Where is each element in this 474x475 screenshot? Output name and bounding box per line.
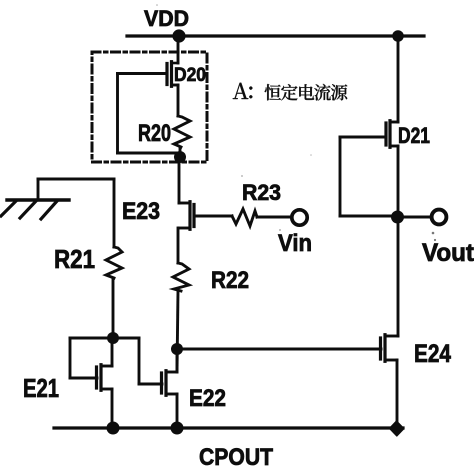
- transistor E24: [381, 335, 399, 428]
- wire E22 gate branch vertical: [138, 338, 141, 384]
- wire D21 gate loop vertical: [339, 137, 342, 216]
- node junction below R20: [174, 151, 186, 163]
- node junction VDD-D21: [392, 30, 404, 42]
- label A: constant current source: [233, 83, 347, 101]
- node junction E21-bottom: [107, 422, 120, 435]
- wire D20 gate loop bottom: [118, 152, 180, 155]
- wire R20 to node: [179, 147, 182, 160]
- wire D21 gate lead: [340, 136, 386, 139]
- svg-text:Vout: Vout: [422, 239, 474, 267]
- resistor R21: [106, 247, 122, 278]
- resistor R20: [174, 116, 190, 147]
- wire E21/E22 top link: [70, 337, 139, 340]
- wire VDD node to D21 drain: [397, 36, 400, 122]
- wire bottom rail CPOUT: [54, 426, 403, 429]
- wire R21 to E21 node: [112, 278, 115, 338]
- transistor E22: [162, 349, 178, 428]
- ground symbol: [1, 179, 69, 219]
- svg-text:E22: E22: [189, 386, 226, 412]
- transistor E23: [179, 202, 194, 230]
- resistor R22: [173, 263, 189, 291]
- svg-text:E24: E24: [414, 340, 451, 368]
- wire D20 source to R20: [177, 85, 180, 116]
- node junction VDD-D20: [172, 29, 185, 42]
- wire E23 gate lead to R23: [194, 215, 232, 218]
- svg-text:CPOUT: CPOUT: [199, 444, 273, 471]
- svg-text:R21: R21: [54, 244, 95, 274]
- wire VDD top rail: [127, 34, 424, 37]
- box A dash-dot border (constant current source): [92, 52, 207, 162]
- node junction R22-E22-E24gate: [171, 343, 183, 355]
- wire E21 gate loop vertical: [69, 338, 72, 378]
- wire left column down to R21: [113, 179, 116, 247]
- wire ground to left column: [38, 178, 114, 181]
- wire R22 to node E22 drain: [177, 291, 178, 372]
- node junction E21 drain: [107, 332, 119, 344]
- svg-text:R23: R23: [242, 180, 281, 205]
- wire R23 to Vin terminal: [257, 216, 292, 219]
- wire E22 gate lead: [139, 383, 162, 386]
- wire D20 gate loop vertical: [116, 74, 119, 154]
- wire D21 source to Vout node: [397, 146, 400, 217]
- transistor D20: [167, 62, 178, 87]
- terminal Vout: [432, 210, 447, 225]
- wire E24 gate lead long: [177, 348, 381, 351]
- wire D20 gate lead: [118, 72, 168, 75]
- svg-text:D21: D21: [398, 123, 430, 148]
- wire E21 gate lead: [70, 377, 97, 380]
- svg-text:D20: D20: [174, 64, 206, 86]
- svg-text:Vin: Vin: [278, 231, 312, 257]
- transistor D21: [386, 121, 398, 148]
- speckle marks (scan artifacts): [156, 4, 436, 241]
- wire Vout node to E24 drain: [397, 217, 400, 336]
- node junction E24-bottom: [390, 421, 404, 436]
- svg-text:VDD: VDD: [144, 6, 189, 31]
- transistor E21: [97, 338, 113, 428]
- terminal Vin: [292, 210, 307, 225]
- resistor R23: [232, 209, 257, 226]
- wire Vout node to terminal: [398, 216, 432, 219]
- wire VDD node to D20 drain: [177, 36, 180, 63]
- svg-text:E21: E21: [23, 373, 59, 403]
- wire E23 source to R22: [177, 228, 180, 263]
- node junction Vout: [391, 211, 404, 224]
- wire D21 gate loop bottom: [340, 215, 397, 218]
- svg-text:R20: R20: [138, 121, 171, 147]
- node junction E22-bottom: [171, 422, 184, 435]
- svg-text:E23: E23: [122, 199, 160, 225]
- svg-text:R22: R22: [211, 267, 249, 294]
- wire node to E23 drain: [178, 160, 181, 203]
